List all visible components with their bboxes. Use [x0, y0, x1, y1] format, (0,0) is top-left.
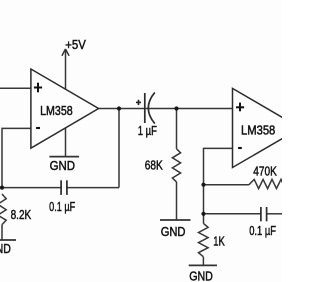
svg-text:GND: GND — [50, 158, 75, 173]
svg-text:8.2K: 8.2K — [11, 207, 32, 222]
svg-text:LM358: LM358 — [40, 103, 73, 118]
svg-text:470K: 470K — [253, 164, 277, 179]
svg-text:GND: GND — [0, 241, 11, 256]
svg-text:0.1 µF: 0.1 µF — [49, 199, 75, 214]
svg-text:1 µF: 1 µF — [138, 123, 157, 138]
svg-text:1K: 1K — [213, 233, 225, 248]
svg-text:0.1 µF: 0.1 µF — [249, 223, 276, 238]
svg-text:GND: GND — [189, 268, 213, 282]
svg-text:GND: GND — [161, 224, 186, 239]
svg-text:LM358: LM358 — [241, 123, 275, 138]
svg-text:68K: 68K — [145, 157, 163, 172]
svg-text:+5V: +5V — [65, 37, 86, 52]
